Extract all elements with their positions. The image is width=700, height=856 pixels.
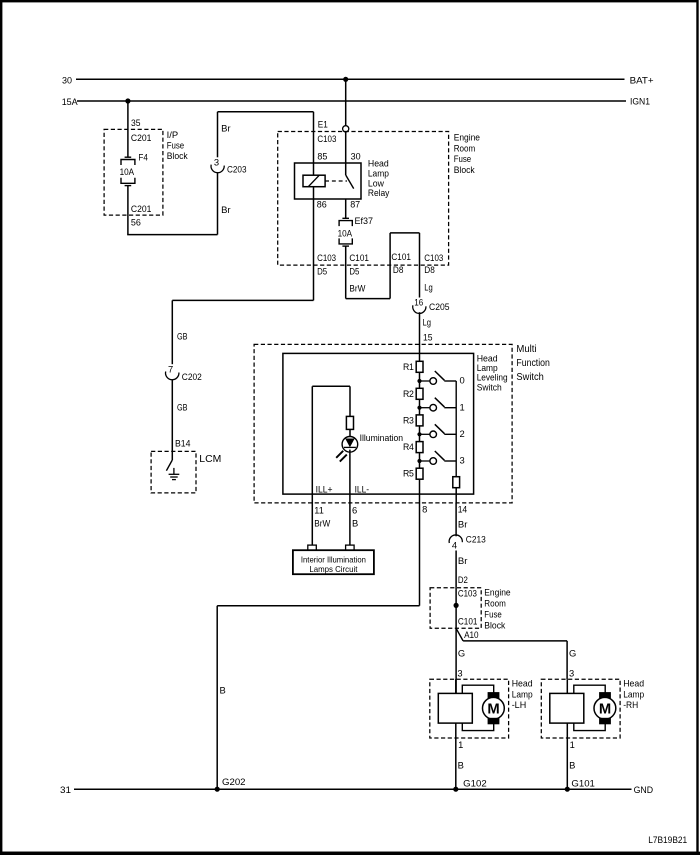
LED illumination lamp circle xyxy=(342,437,358,453)
svg-text:35: 35 xyxy=(131,117,141,128)
svg-text:C103: C103 xyxy=(458,588,477,599)
svg-text:R4: R4 xyxy=(403,441,414,452)
I/P Fuse Block dashed box xyxy=(104,129,163,215)
svg-text:31: 31 xyxy=(60,784,71,795)
wire into actuator RH xyxy=(566,679,568,693)
wire resistor to LED xyxy=(349,429,351,437)
wire blade tick to bus tap 0 xyxy=(444,380,456,382)
wire actuator RH to ground xyxy=(566,723,568,789)
wire jumper left leg up (C101 D8) xyxy=(389,233,391,299)
svg-text:15: 15 xyxy=(423,332,433,343)
svg-text:C201: C201 xyxy=(131,132,152,143)
fuse F4 symbol xyxy=(125,156,132,158)
svg-text:C205: C205 xyxy=(429,301,450,312)
Head Lamp Leveling Switch inner box xyxy=(283,353,474,494)
relay contact blade xyxy=(346,175,354,189)
motor M RH top cap xyxy=(600,693,611,699)
ground junction G202 xyxy=(215,787,220,792)
connector C203 symbol xyxy=(211,165,224,173)
switch blade tap 3 xyxy=(435,451,445,460)
svg-text:GB: GB xyxy=(177,331,188,342)
svg-text:Function: Function xyxy=(516,358,550,369)
svg-text:30: 30 xyxy=(62,75,72,86)
svg-text:E1: E1 xyxy=(318,119,328,130)
relay coil to contact dashed link xyxy=(325,180,347,182)
svg-text:Br: Br xyxy=(458,555,468,566)
svg-text:Relay: Relay xyxy=(368,187,390,198)
svg-text:Br: Br xyxy=(458,519,468,530)
svg-text:3: 3 xyxy=(457,667,462,678)
svg-text:30: 30 xyxy=(351,151,361,162)
wire relay coil pin 85 inside xyxy=(313,163,315,175)
connector C205 symbol xyxy=(413,305,426,313)
Multi Function Switch dashed box xyxy=(254,344,512,503)
junction node in lower fuse block xyxy=(454,603,459,608)
Head Lamp RH dashed box xyxy=(541,679,620,738)
wire motor branch bottom RH xyxy=(574,723,605,731)
switch blade tap 0 xyxy=(435,371,445,380)
ground junction G101 xyxy=(565,787,570,792)
Head Lamp LH dashed box xyxy=(430,679,509,738)
wire branch to RH lamp horizontal xyxy=(463,640,567,642)
svg-text:A10: A10 xyxy=(464,629,479,640)
resistor R3 xyxy=(416,415,423,426)
wire R5 to pin 8 xyxy=(419,479,421,503)
svg-text:-LH: -LH xyxy=(512,699,527,710)
svg-text:R1: R1 xyxy=(403,361,414,372)
wire C205 to switch (Lg) xyxy=(419,312,421,361)
svg-text:Interior Illumination: Interior Illumination xyxy=(301,555,366,564)
svg-text:R3: R3 xyxy=(403,414,414,425)
svg-text:1: 1 xyxy=(570,739,575,750)
svg-text:Lamp: Lamp xyxy=(623,688,644,699)
switch blade tap 2 xyxy=(435,424,445,433)
switch blade tap 1 xyxy=(435,398,445,407)
junction node tap 1 xyxy=(417,406,421,410)
svg-text:Engine: Engine xyxy=(484,586,510,597)
svg-text:C202: C202 xyxy=(182,371,202,382)
svg-text:Switch: Switch xyxy=(477,381,502,392)
svg-text:14: 14 xyxy=(458,504,468,515)
svg-text:BAT+: BAT+ xyxy=(630,74,655,85)
switch contact circle tap 3 xyxy=(430,458,437,465)
switch blade in LCM xyxy=(166,460,172,471)
svg-text:56: 56 xyxy=(131,216,141,227)
terminal square pin 11 xyxy=(308,545,317,550)
svg-text:L7B19B21: L7B19B21 xyxy=(648,834,687,845)
connector C213 symbol xyxy=(449,535,462,543)
svg-text:3: 3 xyxy=(460,455,465,466)
wire C203 riser upper (Br) xyxy=(217,112,219,158)
svg-text:85: 85 xyxy=(317,151,327,162)
wire actuator LH to ground xyxy=(455,723,457,789)
wire into actuator LH xyxy=(455,679,457,693)
svg-text:D2: D2 xyxy=(458,574,468,585)
svg-text:C101: C101 xyxy=(349,252,369,263)
svg-text:C203: C203 xyxy=(227,163,247,174)
svg-text:-RH: -RH xyxy=(623,699,638,710)
wire horizontal BrW jog xyxy=(346,298,390,300)
svg-text:Block: Block xyxy=(454,164,475,175)
LED cathode bar xyxy=(344,446,356,448)
wire LCM riser upper (GB) xyxy=(171,300,173,364)
wire relay pin 87 to fuse Ef37 xyxy=(345,199,347,218)
junction node tap 0 xyxy=(417,379,421,383)
svg-text:10A: 10A xyxy=(120,166,135,177)
connector C202 symbol xyxy=(166,372,179,380)
LCM dashed box xyxy=(151,451,196,493)
svg-text:Head: Head xyxy=(512,678,533,689)
wire 86 horizontal to LCM riser xyxy=(172,299,313,301)
wire from fuse F4 down xyxy=(127,186,129,235)
terminal square pin 6 xyxy=(346,545,355,550)
relay coil xyxy=(303,175,325,187)
svg-text:G101: G101 xyxy=(571,777,595,788)
wire relay pin 30 into contact xyxy=(345,163,347,175)
leveling actuator box RH xyxy=(550,693,584,723)
svg-text:1: 1 xyxy=(460,401,465,412)
wire blade tick to bus tap 1 xyxy=(444,407,456,409)
svg-text:8: 8 xyxy=(422,504,427,515)
svg-text:GND: GND xyxy=(634,784,654,795)
wire motor branch bottom LH xyxy=(462,723,493,731)
svg-text:Fuse: Fuse xyxy=(454,153,472,164)
wire net 15A (IGN1) xyxy=(77,100,626,102)
svg-text:10A: 10A xyxy=(338,227,353,238)
wire pin 8 horizontal to left xyxy=(217,605,419,607)
svg-text:C103: C103 xyxy=(424,252,443,263)
junction node tap 2 xyxy=(417,432,421,436)
resistor R1 xyxy=(416,361,423,372)
LED emission arrows xyxy=(336,451,343,458)
wire C213 down (Br) xyxy=(455,551,457,588)
switch contact circle tap 1 xyxy=(430,404,437,411)
wire tap 3 to contact xyxy=(420,460,431,462)
svg-text:D8: D8 xyxy=(393,264,404,275)
motor M RH circle xyxy=(594,697,616,719)
leveling actuator box LH xyxy=(438,693,472,723)
svg-text:Multi: Multi xyxy=(516,344,536,355)
svg-text:Block: Block xyxy=(484,619,505,630)
svg-text:C101: C101 xyxy=(458,615,478,626)
svg-text:D5: D5 xyxy=(349,265,359,276)
junction on net 30 at E1 riser xyxy=(343,77,348,82)
wire horizontal C203 to relay pin 85 riser xyxy=(218,111,314,113)
wire RH lamp riser (G) xyxy=(566,641,568,679)
ground symbol in LCM xyxy=(173,468,175,474)
svg-text:M: M xyxy=(599,701,611,717)
svg-text:7: 7 xyxy=(168,363,173,374)
resistor at bus bottom xyxy=(453,477,460,488)
wire tap 1 to contact xyxy=(420,407,431,409)
wire jumper right leg down (C103 D8) xyxy=(419,233,421,298)
svg-text:Fuse: Fuse xyxy=(484,608,502,619)
svg-text:B14: B14 xyxy=(175,437,191,448)
svg-text:C103: C103 xyxy=(317,252,336,263)
junction on net 15A at I/P fuse riser xyxy=(125,98,130,103)
wire net 30 (BAT+) xyxy=(76,78,625,80)
wire jumper top xyxy=(390,232,419,234)
svg-text:GB: GB xyxy=(177,402,188,413)
svg-text:0: 0 xyxy=(460,375,465,386)
wire horizontal 56 to C203 riser xyxy=(127,234,217,236)
svg-text:G202: G202 xyxy=(222,776,246,787)
svg-text:Room: Room xyxy=(454,142,476,153)
ground junction G102 xyxy=(453,787,458,792)
motor M LH top cap xyxy=(488,693,499,699)
wire pin 11 (BrW) to lamps circuit xyxy=(311,494,313,545)
relay Head Lamp Low Relay box xyxy=(295,163,362,199)
svg-text:Lg: Lg xyxy=(423,317,432,328)
Interior Illumination Lamps Circuit box xyxy=(293,550,374,574)
svg-text:LCM: LCM xyxy=(199,453,221,465)
svg-text:G102: G102 xyxy=(463,777,487,788)
svg-text:C213: C213 xyxy=(466,534,486,545)
wire ladder segment below R3 xyxy=(419,426,421,442)
svg-text:F4: F4 xyxy=(138,152,148,163)
svg-text:I/P: I/P xyxy=(167,129,179,140)
svg-text:Br: Br xyxy=(221,204,231,215)
wire ILL+ riser xyxy=(311,386,313,494)
wire E1 to relay pin 30 xyxy=(345,132,347,163)
wire pin 14 down (Br) xyxy=(455,503,457,536)
svg-text:G: G xyxy=(569,648,576,659)
motor M LH circle xyxy=(483,697,505,719)
junction node tap 3 xyxy=(417,459,421,463)
svg-text:1: 1 xyxy=(458,739,463,750)
wire illumination branch top xyxy=(312,385,350,387)
wire from net 15A to fuse F4 xyxy=(127,101,129,157)
wire through lower fuse block xyxy=(455,588,457,629)
wire net 31 ground bus xyxy=(74,788,632,790)
motor M RH bottom cap xyxy=(600,718,611,724)
wire tap 2 to contact xyxy=(420,433,431,435)
LED triangle xyxy=(345,439,355,448)
svg-text:ILL+: ILL+ xyxy=(316,484,333,495)
svg-text:2: 2 xyxy=(460,428,465,439)
svg-text:3: 3 xyxy=(214,156,219,167)
wire bus of leveling switch xyxy=(455,381,457,477)
svg-text:Block: Block xyxy=(167,150,188,161)
wire LH lamp riser (G) xyxy=(455,628,457,693)
svg-text:86: 86 xyxy=(317,199,327,210)
wire C203 riser lower (Br) xyxy=(217,172,219,234)
svg-text:C103: C103 xyxy=(317,133,336,144)
switch contact circle tap 2 xyxy=(430,431,437,438)
svg-text:B: B xyxy=(220,685,226,696)
svg-text:R5: R5 xyxy=(403,468,414,479)
wire ladder segment below R4 xyxy=(419,453,421,469)
resistor R5 xyxy=(416,468,423,479)
Engine Room Fuse Block lower dashed box xyxy=(430,588,481,629)
svg-text:D8: D8 xyxy=(424,264,435,275)
motor M LH bottom cap xyxy=(488,718,499,724)
resistor R2 xyxy=(416,388,423,399)
wire through LED down xyxy=(349,450,351,495)
wire relay pin 86 down (coil ground side) xyxy=(313,199,315,300)
svg-text:15A: 15A xyxy=(62,96,79,107)
svg-text:R2: R2 xyxy=(403,388,414,399)
svg-text:M: M xyxy=(487,701,499,717)
svg-text:Lg: Lg xyxy=(424,282,433,293)
svg-text:BrW: BrW xyxy=(349,282,365,293)
fuse Ef37 symbol xyxy=(342,217,349,219)
svg-text:3: 3 xyxy=(569,667,574,678)
switch contact circle tap 0 xyxy=(430,378,437,385)
svg-text:Room: Room xyxy=(484,597,506,608)
wire relay coil pin 86 inside xyxy=(313,187,315,199)
svg-text:87: 87 xyxy=(350,199,360,210)
wire pin 6 (B) to lamps circuit xyxy=(349,494,351,545)
svg-text:11: 11 xyxy=(314,505,324,516)
wire relay pin 85 riser xyxy=(313,112,315,163)
svg-text:Lamp: Lamp xyxy=(512,688,533,699)
svg-text:G: G xyxy=(458,648,465,659)
wire tap 0 to contact xyxy=(420,380,431,382)
wire motor branch top RH xyxy=(574,685,605,693)
wire blade tick to bus tap 3 xyxy=(444,460,456,462)
svg-text:ILL-: ILL- xyxy=(355,484,370,495)
svg-text:Lamps Circuit: Lamps Circuit xyxy=(309,565,358,574)
wire fuse Ef37 down xyxy=(345,246,347,299)
svg-text:C201: C201 xyxy=(131,203,152,214)
wire LCM riser lower (GB) xyxy=(171,379,173,460)
svg-text:6: 6 xyxy=(352,505,357,516)
wire G202 riser (B) xyxy=(216,606,218,790)
wire bus resistor to pin 14 xyxy=(455,488,457,503)
svg-text:BrW: BrW xyxy=(314,518,330,529)
Engine Room Fuse Block dashed box xyxy=(278,132,449,266)
svg-text:Engine: Engine xyxy=(454,132,480,143)
svg-text:B: B xyxy=(458,760,464,771)
svg-text:Switch: Switch xyxy=(516,372,543,383)
svg-text:B: B xyxy=(352,518,358,529)
resistor R4 xyxy=(416,442,423,453)
svg-text:B: B xyxy=(569,760,575,771)
svg-text:Ef37: Ef37 xyxy=(355,215,374,226)
wire net 30 to connector E1 xyxy=(345,79,347,125)
connector E1 circle xyxy=(343,126,349,132)
resistor illumination xyxy=(346,416,353,429)
svg-text:D5: D5 xyxy=(317,265,327,276)
svg-text:Illumination: Illumination xyxy=(360,432,404,443)
svg-text:16: 16 xyxy=(414,297,423,308)
svg-text:Br: Br xyxy=(221,123,231,134)
wire A10 diagonal branch xyxy=(456,628,463,641)
svg-text:C101: C101 xyxy=(391,251,411,262)
svg-text:4: 4 xyxy=(452,540,457,551)
wire branch top to resistor xyxy=(349,386,351,416)
wire ladder segment below R1 xyxy=(419,372,421,388)
wire pin 8 down xyxy=(419,503,421,606)
wire ladder segment below R2 xyxy=(419,399,421,415)
wire blade tick to bus tap 2 xyxy=(444,433,456,435)
svg-text:IGN1: IGN1 xyxy=(630,96,650,107)
wire motor branch top LH xyxy=(462,685,493,693)
svg-text:Fuse: Fuse xyxy=(167,140,185,151)
svg-text:Head: Head xyxy=(623,678,644,689)
